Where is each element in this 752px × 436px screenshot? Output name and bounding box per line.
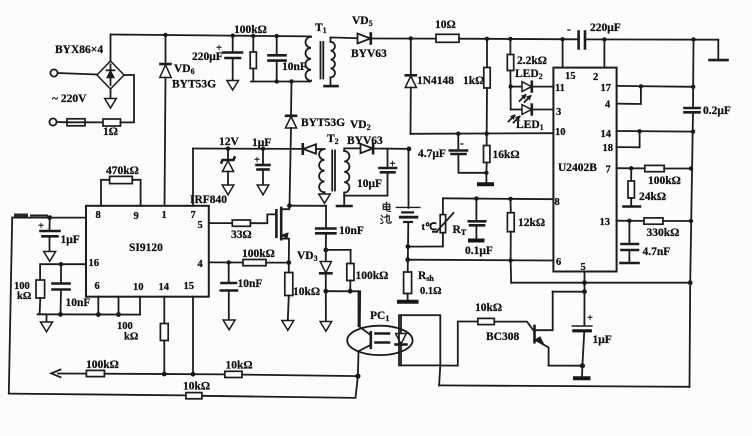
ground bar below 0.1uF xyxy=(468,239,485,243)
node pin5/collector branch xyxy=(582,289,587,294)
wire top rail left section xyxy=(111,35,311,37)
ground bar below Rsh xyxy=(397,300,419,304)
svg-text:100kΩ: 100kΩ xyxy=(86,359,119,371)
resistor 16kΩ xyxy=(484,134,520,173)
wire pin4 right and up xyxy=(617,86,641,104)
transformer T1 core xyxy=(320,42,322,79)
ground bar below 24k xyxy=(624,205,641,208)
svg-text:33Ω: 33Ω xyxy=(231,229,252,241)
wire VD3 node to PC1 collector drop xyxy=(326,291,360,326)
svg-text:BYV63: BYV63 xyxy=(347,135,383,147)
resistor 100kΩ (VD3 bypass) xyxy=(326,250,389,291)
node 10nF/VD3/100k xyxy=(323,248,328,253)
svg-text:1μF: 1μF xyxy=(61,234,80,246)
svg-text:17: 17 xyxy=(601,83,612,94)
capacitor 220uF (right, series in rail) xyxy=(567,22,621,48)
pin 10b stub down xyxy=(139,297,141,315)
node 4.7uF/16k bottom xyxy=(484,171,488,175)
node rail/pin2 xyxy=(602,37,606,41)
ground below 1uF xyxy=(257,185,269,195)
wire3 bottom long xyxy=(439,385,689,386)
svg-text:T2: T2 xyxy=(327,133,339,146)
capacitor 10uF xyxy=(357,149,396,196)
svg-text:3: 3 xyxy=(556,107,561,118)
wire 12k-bottom down to pin5 wire xyxy=(510,260,513,282)
node LED2 branch xyxy=(509,84,513,88)
svg-text:16: 16 xyxy=(89,258,100,269)
svg-text:10Ω: 10Ω xyxy=(435,19,456,31)
resistor 330kΩ xyxy=(644,218,691,239)
pin 15 stub xyxy=(563,39,576,82)
ground below bottom net xyxy=(41,314,53,332)
svg-text:kΩ: kΩ xyxy=(17,291,31,302)
resistor 10kΩ (source) xyxy=(285,263,320,321)
svg-text:2.2kΩ: 2.2kΩ xyxy=(517,55,547,67)
diode VD3 xyxy=(297,250,331,291)
svg-text:1N4148: 1N4148 xyxy=(417,75,454,87)
svg-text:10kΩ: 10kΩ xyxy=(475,302,502,314)
resistor 10kΩ (wire1) xyxy=(225,360,358,378)
node snubber/BYT53G line xyxy=(289,79,293,83)
svg-text:100kΩ: 100kΩ xyxy=(648,175,681,187)
svg-text:BC308: BC308 xyxy=(486,331,519,343)
wire pin13 right xyxy=(617,220,644,222)
transformer T2 left winding xyxy=(319,133,339,192)
ground bar below 4.7nF xyxy=(621,262,639,265)
svg-text:10: 10 xyxy=(555,127,566,138)
capacitor 1uF (pin5) xyxy=(572,292,611,366)
PC1 box xyxy=(399,315,440,365)
wire pin18 right and up xyxy=(617,131,640,147)
node rail/VD6 xyxy=(163,33,167,37)
wire pin-10 net: 1N4148 bottom to U2402B pin 10 xyxy=(411,132,554,135)
PC1 LED xyxy=(396,315,407,365)
node pin6/12k bottom xyxy=(508,258,512,262)
transistor BC308 xyxy=(486,292,553,366)
svg-text:~ 220V: ~ 220V xyxy=(52,93,87,105)
svg-text:t℃: t℃ xyxy=(422,221,437,233)
resistor 2.2kΩ xyxy=(507,39,547,110)
svg-text:VD5: VD5 xyxy=(352,15,373,28)
svg-text:1: 1 xyxy=(162,210,167,221)
svg-text:10μF: 10μF xyxy=(357,178,382,190)
svg-text:13: 13 xyxy=(600,217,611,228)
label battery 电 xyxy=(383,202,390,211)
node 1uF (SI9120) xyxy=(47,215,52,220)
svg-text:PC1: PC1 xyxy=(370,310,389,323)
wire pin16 net xyxy=(40,264,86,280)
svg-text:18: 18 xyxy=(603,143,614,154)
svg-text:Rsh: Rsh xyxy=(418,270,434,283)
ground below T2 left winding xyxy=(319,192,331,203)
LED1 xyxy=(509,105,554,132)
svg-text:+: + xyxy=(587,313,593,324)
node pin4/10nF xyxy=(227,260,231,264)
svg-text:LED1: LED1 xyxy=(516,119,544,132)
svg-text:kΩ: kΩ xyxy=(124,332,138,343)
svg-text:14: 14 xyxy=(601,129,612,140)
svg-text:8: 8 xyxy=(96,210,101,221)
diode VD2 BYV63 xyxy=(347,119,409,153)
wire snubber bottom xyxy=(251,81,310,83)
node right vertical/pin5 wire xyxy=(688,280,693,285)
svg-text:5: 5 xyxy=(198,220,203,231)
svg-text:9: 9 xyxy=(134,211,139,222)
svg-text:16kΩ: 16kΩ xyxy=(493,149,520,161)
label battery 池 xyxy=(381,215,391,224)
svg-text:7: 7 xyxy=(606,165,611,176)
svg-text:SI9120: SI9120 xyxy=(129,242,163,254)
svg-text:-: - xyxy=(460,138,464,150)
wire input top to bridge xyxy=(58,73,97,75)
svg-text:1μF: 1μF xyxy=(252,137,271,149)
node pin5/wire xyxy=(582,280,587,285)
wire LED cathode to 10k base resistor xyxy=(440,322,478,366)
wire pin17 right xyxy=(617,85,694,88)
wire top right corner down xyxy=(717,40,719,60)
node rail/100k xyxy=(251,34,255,38)
resistor 10Ω xyxy=(435,19,459,42)
svg-text:10kΩ: 10kΩ xyxy=(293,286,320,298)
wire1 feedback with arrow xyxy=(51,370,86,378)
ground bar below 16k xyxy=(477,173,494,185)
capacitor 4.7nF xyxy=(622,221,671,262)
node snubber/10nF bottom xyxy=(275,79,279,83)
svg-text:10: 10 xyxy=(133,282,144,293)
transformer T1 secondary xyxy=(331,37,358,85)
svg-text:10nF: 10nF xyxy=(238,278,263,290)
capacitor 0.2uF xyxy=(685,105,731,117)
svg-text:100kΩ: 100kΩ xyxy=(234,24,267,36)
svg-text:0.1Ω: 0.1Ω xyxy=(420,286,442,297)
node 1uF bottom/emitter xyxy=(580,363,585,368)
resistor 100kΩ (snubber) xyxy=(234,24,267,82)
optocoupler PC1 xyxy=(347,310,412,355)
capacitor 10nF (pin16) xyxy=(53,264,91,314)
svg-text:BYX86×4: BYX86×4 xyxy=(55,44,103,56)
wire right vertical lower xyxy=(690,112,693,282)
svg-text:BYT53G: BYT53G xyxy=(172,79,216,91)
node pin13/4.7nF xyxy=(627,219,631,223)
node wire1/PC1 emitter xyxy=(355,374,360,379)
resistor 100kΩ (wire1) xyxy=(86,359,225,377)
svg-text:7: 7 xyxy=(191,210,196,221)
wire VD6 down to SI9120 pin1 xyxy=(165,78,166,206)
node rail/right vertical xyxy=(691,37,695,41)
ground below zener xyxy=(222,185,234,195)
capacitor 1uF (12V) xyxy=(252,137,271,185)
wire BC308 emitter to 1uF bottom xyxy=(549,365,583,367)
wire right vertical to bottom wire3 xyxy=(689,283,692,387)
wire PC1 box corner to wire3 xyxy=(439,365,440,385)
zener diode (12V clamp) xyxy=(222,149,235,185)
svg-text:T1: T1 xyxy=(315,22,327,35)
svg-text:15: 15 xyxy=(565,71,576,82)
svg-text:VD3: VD3 xyxy=(297,250,318,263)
svg-text:VD6: VD6 xyxy=(174,63,195,76)
wire pin7 stub up to 12V rail xyxy=(192,149,194,206)
node battery/RT wire xyxy=(406,244,411,249)
PC1 coupling dashes xyxy=(376,332,390,335)
node bottom/pin6 stub xyxy=(96,312,101,317)
wire2 feedback lower xyxy=(9,394,186,396)
svg-text:0.1μF: 0.1μF xyxy=(465,245,493,257)
svg-text:2: 2 xyxy=(593,72,598,83)
svg-text:10nF: 10nF xyxy=(66,297,91,309)
node drain junction xyxy=(287,203,292,208)
ground below 220uF xyxy=(227,81,239,91)
wire 1Ω to bridge right vertex xyxy=(121,75,135,122)
node pin14/pin18 join xyxy=(637,129,641,133)
wire VD5 to 10Ω rail xyxy=(371,38,436,40)
node wire1/pin15 xyxy=(191,372,196,377)
svg-text:RT: RT xyxy=(453,224,467,237)
ground below pin4 10nF xyxy=(223,320,235,330)
svg-text:4.7μF: 4.7μF xyxy=(418,148,446,160)
node pin8/0.1uF xyxy=(474,196,478,200)
svg-text:11: 11 xyxy=(555,83,565,94)
ground bar T1 secondary xyxy=(325,85,338,88)
pin 10 stub down xyxy=(118,297,120,315)
node rail/2.2kΩ xyxy=(508,37,512,41)
svg-text:1kΩ: 1kΩ xyxy=(463,75,484,87)
svg-text:15: 15 xyxy=(184,281,195,292)
wire rail 10Ω to 220uF xyxy=(459,38,578,41)
wire pin15 drop xyxy=(192,297,194,375)
node pin16/10nF top xyxy=(59,262,63,266)
wire pin8 net xyxy=(443,197,554,200)
node pin7/24k xyxy=(629,166,633,170)
wire feedback top to 1uF node xyxy=(12,217,86,219)
wire SI9120 bottom net xyxy=(38,313,140,315)
capacitor 10nF (snubber) xyxy=(269,36,307,81)
svg-text:100kΩ: 100kΩ xyxy=(356,270,389,282)
svg-text:10nF: 10nF xyxy=(339,225,364,237)
resistor 100kΩ (pin7) xyxy=(645,165,691,187)
node 12V/zener xyxy=(226,146,230,150)
svg-text:100: 100 xyxy=(117,321,133,332)
svg-text:10kΩ: 10kΩ xyxy=(183,381,210,393)
svg-text:BYV63: BYV63 xyxy=(351,48,387,60)
ground below 1uF xyxy=(44,252,56,262)
resistor 12kΩ xyxy=(507,199,545,261)
svg-text:14: 14 xyxy=(159,282,170,293)
node rail/pin15 xyxy=(560,37,564,41)
diode (12V to T2, pointing left) xyxy=(303,144,325,153)
node pin17 wire/right vertical xyxy=(691,85,695,89)
ground bar below T2 right winding xyxy=(337,196,352,206)
resistor 10kΩ (wire2) xyxy=(183,376,358,399)
ground bar top right xyxy=(710,59,728,62)
wire left feedback vertical xyxy=(9,218,12,394)
terminal bottom input xyxy=(49,118,56,125)
svg-text:4: 4 xyxy=(198,259,204,270)
resistor 1kΩ xyxy=(463,39,490,134)
wire RT bottom to battery xyxy=(408,246,443,248)
node VD2 out / battery line xyxy=(407,147,412,152)
svg-text:6: 6 xyxy=(556,257,561,268)
wire collector branch xyxy=(553,291,585,293)
diode 1N4148 xyxy=(405,39,454,134)
node 330k/right vertical xyxy=(689,219,693,223)
ground below source 10k xyxy=(282,321,294,331)
node 100k bottom xyxy=(348,289,353,294)
svg-text:BYT53G: BYT53G xyxy=(301,117,345,129)
node VD5 out / 1N4148 xyxy=(409,36,413,40)
wire bridge top to top rail xyxy=(110,35,112,62)
wire pin7 right xyxy=(617,167,645,169)
node pin14 wire/right vertical xyxy=(691,129,695,133)
svg-text:LED2: LED2 xyxy=(515,68,543,81)
wire pin6 net battery to IC xyxy=(408,259,554,262)
resistor 100kΩ (pin14 drop) xyxy=(117,297,168,374)
wire pin5 horizontal xyxy=(511,282,690,284)
node pin8/12k xyxy=(508,197,512,201)
node wire1/pin14 xyxy=(162,372,167,377)
ground below bridge xyxy=(105,89,117,108)
svg-text:0.2μF: 0.2μF xyxy=(703,105,731,117)
svg-text:4.7nF: 4.7nF xyxy=(643,246,671,258)
diode VD6 BYT53G xyxy=(160,35,216,91)
svg-text:10kΩ: 10kΩ xyxy=(226,360,253,372)
resistor 33Ω (gate) xyxy=(209,214,276,241)
IC SI9120 xyxy=(86,206,209,297)
node bottom/10nF xyxy=(58,312,63,317)
svg-text:VD2: VD2 xyxy=(350,119,371,132)
diode VD5 BYV63 xyxy=(351,15,387,60)
svg-text:100kΩ: 100kΩ xyxy=(242,248,275,260)
node pin17/pin4 join xyxy=(639,84,643,88)
resistor 24kΩ xyxy=(628,168,666,205)
svg-text:24kΩ: 24kΩ xyxy=(639,191,666,203)
wire rail 220uF to right corner xyxy=(585,38,718,40)
wire 12V rail xyxy=(193,148,303,150)
svg-text:12V: 12V xyxy=(219,136,240,148)
node rail/1kΩ xyxy=(485,37,489,41)
resistor 10kΩ (BC308 base) xyxy=(475,302,534,331)
svg-text:220μF: 220μF xyxy=(590,22,621,34)
svg-text:IRF840: IRF840 xyxy=(190,194,227,206)
node MOSFET source/100k/10k xyxy=(286,260,291,265)
resistor Rsh 0.1Ω xyxy=(404,270,442,300)
bridge rectifier BYX86x4 xyxy=(55,44,124,89)
PC1 phototransistor xyxy=(358,291,371,376)
node bottom/stub xyxy=(116,312,121,317)
node pin10-wire/1k-16k xyxy=(485,132,489,136)
capacitor 4.7uF xyxy=(418,134,486,173)
svg-text:470kΩ: 470kΩ xyxy=(106,165,139,177)
capacitor 10nF (pin4) xyxy=(221,263,263,321)
svg-text:1Ω: 1Ω xyxy=(103,126,118,138)
pin 5 stub down xyxy=(584,272,586,292)
wire right vertical upper (rail to 0.2uF) xyxy=(692,40,695,108)
diode BYT53G (vertical, drain clamp) xyxy=(285,82,296,206)
node VD3 bottom xyxy=(323,289,328,294)
transistor IRF840 MOSFET xyxy=(276,206,289,263)
capacitor 10nF (VD3 snubber) xyxy=(316,206,364,250)
resistor 1Ω xyxy=(85,119,121,138)
node battery/pin6 wire xyxy=(405,257,410,262)
wire pin14 right xyxy=(617,130,693,133)
svg-text:6: 6 xyxy=(95,281,100,292)
node 12V/1uF xyxy=(261,147,265,151)
transformer T2 core xyxy=(331,151,333,191)
resistor 100kΩ (SI9120 pin4) xyxy=(209,248,289,266)
capacitor 220uF (left) xyxy=(192,36,242,81)
stray scan mark xyxy=(14,214,28,218)
pin 6 stub down xyxy=(97,297,99,315)
fuse xyxy=(57,119,85,126)
wire drain junction to snubber xyxy=(290,205,327,207)
resistor 470kΩ with legs to pins 8,9 xyxy=(101,165,141,206)
svg-text:1μF: 1μF xyxy=(593,334,612,346)
pin 2 stub xyxy=(593,39,604,83)
resistor 100kΩ (pin16) xyxy=(14,280,45,314)
node pin10-wire/4.7uF xyxy=(456,132,460,136)
battery cell stack xyxy=(396,149,419,272)
svg-text:U2402B: U2402B xyxy=(558,162,597,174)
capacitor 0.1uF xyxy=(465,199,493,257)
node rail/10nF xyxy=(275,34,279,38)
thermistor RT xyxy=(422,198,467,246)
svg-text:4: 4 xyxy=(605,100,611,111)
IC U2402B xyxy=(553,68,616,272)
node rail/220uF xyxy=(231,34,235,38)
node 100k/right vertical xyxy=(689,166,693,170)
transformer T2 right winding xyxy=(344,148,360,195)
svg-text:+: + xyxy=(216,43,222,54)
transformer T1 primary xyxy=(306,22,327,82)
capacitor 1uF (SI9120) xyxy=(38,218,80,252)
ground below VD3 node xyxy=(320,291,332,331)
svg-text:8: 8 xyxy=(555,197,560,208)
svg-text:-: - xyxy=(567,24,571,36)
svg-text:12kΩ: 12kΩ xyxy=(518,217,545,229)
wire T2 bottom to 10uF bottom xyxy=(344,195,387,197)
svg-text:330kΩ: 330kΩ xyxy=(647,227,680,239)
terminal top input xyxy=(50,69,57,76)
LED2 xyxy=(511,68,554,102)
ground bar below 1uF xyxy=(573,366,591,379)
svg-text:10nF: 10nF xyxy=(282,61,307,73)
